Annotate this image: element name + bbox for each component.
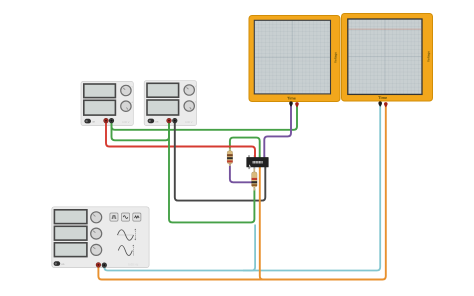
svg-text:Voltage: Voltage	[333, 52, 337, 63]
oscilloscope SCOPE2 Voltage label	[426, 51, 430, 62]
wire orange op-amp to SCOPE2 red probe	[260, 104, 386, 280]
wire green PS1- to SCOPE1 red probe	[112, 104, 298, 130]
PS2 positive terminal	[167, 118, 172, 123]
SCOPE1 black probe pin	[289, 101, 293, 106]
svg-text:Voltage: Voltage	[426, 51, 430, 62]
resistor R2	[252, 169, 258, 191]
PS1 positive terminal	[104, 118, 109, 123]
oscilloscope SCOPE1 body	[249, 16, 340, 102]
SCOPE2 black probe pin	[378, 101, 382, 106]
wire purple R1 to R2	[230, 163, 255, 182]
resistor R1	[227, 149, 233, 167]
oscilloscope SCOPE2 Time label	[378, 96, 387, 100]
SCOPE2 red probe pin	[384, 102, 388, 107]
PS1 negative terminal	[109, 118, 114, 123]
wire orange FG1 red to bottom rail	[98, 265, 375, 280]
PS2 negative terminal	[173, 118, 178, 123]
op-amp U1	[246, 157, 268, 167]
svg-text:0.00 V: 0.00 V	[185, 121, 193, 124]
oscilloscope SCOPE1 Time label	[287, 96, 296, 100]
function generator FG1 triangle wave button	[133, 213, 141, 221]
FG1 positive terminal	[96, 263, 101, 268]
svg-text:0.00 V: 0.00 V	[122, 121, 130, 124]
svg-text:Time: Time	[287, 96, 296, 100]
wire black PS2- to op-amp	[175, 121, 265, 201]
power supply PS2 body	[144, 81, 197, 126]
svg-text:Time: Time	[378, 96, 387, 100]
wire cyan FG1 black to SCOPE2 black probe	[104, 104, 380, 271]
wire purple SCOPE1 black probe to op-amp	[264, 104, 291, 159]
function generator FG1 offset icon	[118, 245, 134, 256]
oscilloscope SCOPE1 Voltage label	[333, 52, 337, 63]
wire green R1 to op-amp	[230, 138, 260, 158]
function generator FG1 square wave button	[110, 213, 118, 221]
wire green PS2+ to R2	[169, 121, 254, 223]
FG1 negative terminal	[102, 263, 107, 268]
SCOPE1 red probe pin	[295, 102, 299, 107]
svg-text:0.00 Hz: 0.00 Hz	[128, 262, 139, 266]
function generator FG1 body	[52, 207, 149, 268]
op-amp U1 pins	[248, 155, 266, 169]
power supply PS1 body	[81, 82, 134, 126]
wire red PS1+ to op-amp	[106, 121, 255, 159]
oscilloscope SCOPE2 body	[342, 14, 433, 102]
wire green PS1- to PS2+	[112, 121, 170, 141]
function generator FG1 amplitude icon	[117, 229, 136, 241]
function generator FG1 sine wave button	[122, 213, 130, 221]
wire cyan R2 branch to bottom rail	[243, 225, 255, 271]
